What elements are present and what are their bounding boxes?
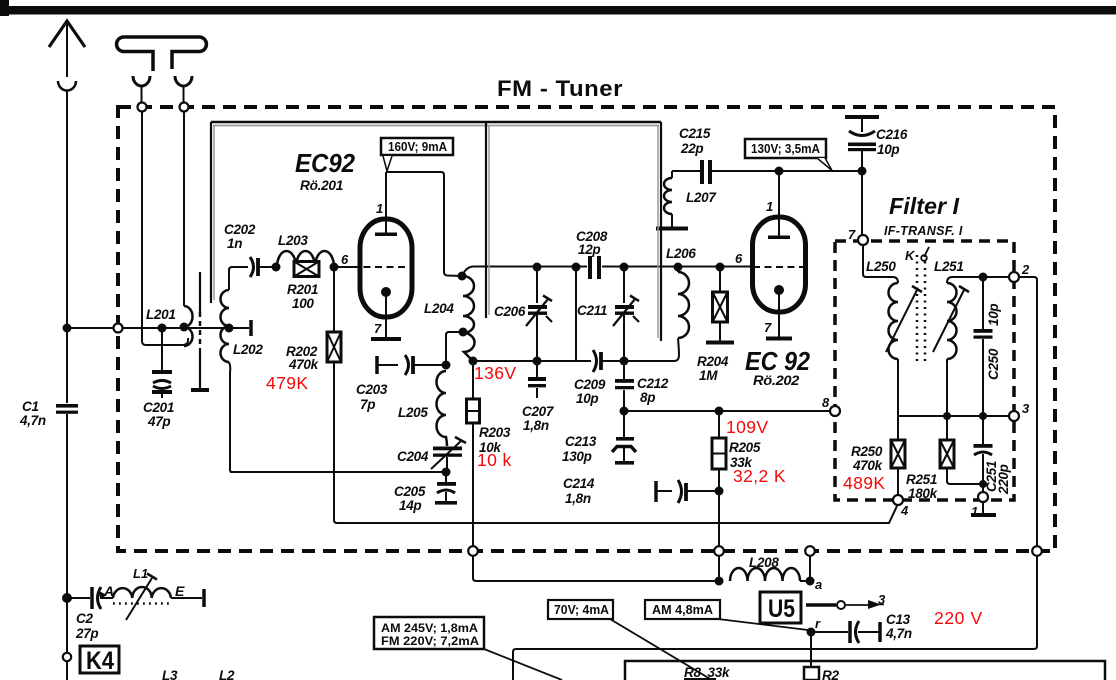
svg-text:7: 7 — [764, 320, 772, 335]
svg-text:K4: K4 — [86, 647, 114, 675]
svg-text:EC92: EC92 — [295, 148, 355, 178]
svg-text:R250: R250 — [851, 444, 883, 459]
svg-text:R8 33k: R8 33k — [684, 665, 731, 680]
svg-text:4,7n: 4,7n — [19, 413, 46, 428]
svg-text:C203: C203 — [356, 382, 388, 397]
svg-text:7: 7 — [374, 321, 382, 336]
svg-text:10p: 10p — [986, 304, 1001, 326]
svg-text:FM 220V; 7,2mA: FM 220V; 7,2mA — [381, 636, 479, 648]
svg-text:U5: U5 — [768, 595, 795, 623]
svg-text:32,2 K: 32,2 K — [733, 466, 786, 486]
svg-text:AM 4,8mA: AM 4,8mA — [652, 603, 713, 617]
svg-text:1M: 1M — [699, 368, 718, 383]
svg-text:4: 4 — [900, 503, 909, 518]
svg-text:IF-TRANSF. I: IF-TRANSF. I — [884, 224, 963, 238]
svg-text:L203: L203 — [278, 233, 308, 248]
svg-text:479K: 479K — [266, 373, 308, 393]
svg-text:L202: L202 — [233, 342, 263, 357]
svg-text:C216: C216 — [876, 127, 908, 142]
svg-text:R203: R203 — [479, 425, 511, 440]
svg-text:10 k: 10 k — [477, 450, 512, 470]
svg-text:C1: C1 — [22, 399, 39, 414]
svg-text:70V; 4mA: 70V; 4mA — [554, 603, 609, 617]
svg-text:8p: 8p — [640, 390, 655, 405]
svg-text:C211: C211 — [577, 303, 607, 318]
svg-text:109V: 109V — [726, 417, 768, 437]
svg-text:C215: C215 — [679, 126, 711, 141]
svg-text:14p: 14p — [399, 498, 421, 513]
svg-text:L207: L207 — [686, 190, 717, 205]
svg-text:A: A — [103, 583, 114, 599]
svg-text:22p: 22p — [680, 141, 703, 156]
svg-text:C13: C13 — [886, 612, 911, 627]
svg-text:C250: C250 — [986, 348, 1001, 380]
svg-text:470k: 470k — [288, 357, 320, 372]
svg-text:C205: C205 — [394, 484, 426, 499]
svg-text:C213: C213 — [565, 434, 597, 449]
svg-text:160V; 9mA: 160V; 9mA — [388, 140, 447, 154]
svg-text:C214: C214 — [563, 476, 595, 491]
svg-text:L205: L205 — [398, 405, 428, 420]
svg-text:L201: L201 — [146, 307, 176, 322]
svg-text:130p: 130p — [562, 449, 592, 464]
svg-text:L208: L208 — [749, 555, 779, 570]
svg-text:7: 7 — [848, 227, 856, 242]
svg-text:EC 92: EC 92 — [745, 346, 810, 376]
svg-text:C207: C207 — [522, 404, 555, 419]
svg-text:12p: 12p — [578, 242, 600, 257]
svg-text:Filter I: Filter I — [889, 193, 960, 219]
svg-text:6: 6 — [341, 252, 349, 267]
svg-text:1: 1 — [971, 504, 978, 519]
svg-text:Rö.202: Rö.202 — [753, 373, 800, 388]
svg-text:136V: 136V — [474, 363, 516, 383]
svg-text:C201: C201 — [143, 400, 174, 415]
svg-text:L3: L3 — [162, 668, 178, 680]
svg-text:C212: C212 — [637, 376, 669, 391]
svg-text:C204: C204 — [397, 449, 429, 464]
svg-text:489K: 489K — [843, 473, 885, 493]
svg-text:100: 100 — [292, 296, 314, 311]
svg-text:470k: 470k — [852, 458, 884, 473]
svg-text:1: 1 — [376, 201, 383, 216]
svg-text:C2: C2 — [76, 611, 93, 626]
svg-text:2: 2 — [1021, 262, 1030, 277]
svg-text:C206: C206 — [494, 304, 526, 319]
svg-text:Rö.201: Rö.201 — [300, 178, 343, 193]
svg-text:10p: 10p — [576, 391, 598, 406]
svg-text:AM 245V; 1,8mA: AM 245V; 1,8mA — [381, 623, 478, 635]
svg-text:R205: R205 — [729, 440, 761, 455]
svg-text:180k: 180k — [908, 486, 939, 501]
svg-text:R204: R204 — [697, 354, 729, 369]
svg-text:C209: C209 — [574, 377, 606, 392]
svg-text:R2: R2 — [822, 668, 839, 680]
svg-text:27p: 27p — [75, 626, 98, 641]
svg-text:FM - Tuner: FM - Tuner — [497, 76, 623, 101]
svg-text:1,8n: 1,8n — [565, 491, 591, 506]
svg-text:3: 3 — [1022, 401, 1030, 416]
svg-text:130V; 3,5mA: 130V; 3,5mA — [751, 142, 820, 156]
svg-text:a: a — [815, 577, 822, 592]
svg-text:K: K — [905, 248, 916, 263]
svg-text:L250: L250 — [866, 259, 896, 274]
svg-text:6: 6 — [735, 251, 743, 266]
svg-text:R201: R201 — [287, 282, 318, 297]
svg-text:1n: 1n — [227, 236, 242, 251]
svg-text:7p: 7p — [360, 397, 375, 412]
svg-text:L2: L2 — [219, 668, 235, 680]
svg-text:10p: 10p — [877, 142, 899, 157]
svg-text:L251: L251 — [934, 259, 964, 274]
svg-text:R251: R251 — [906, 472, 937, 487]
svg-text:L1: L1 — [133, 566, 148, 581]
svg-text:L206: L206 — [666, 246, 696, 261]
svg-text:L204: L204 — [424, 301, 454, 316]
svg-text:220p: 220p — [996, 464, 1011, 495]
svg-text:3: 3 — [878, 592, 886, 607]
svg-text:1,8n: 1,8n — [523, 418, 549, 433]
svg-text:C202: C202 — [224, 222, 256, 237]
svg-text:1: 1 — [766, 199, 773, 214]
svg-text:E: E — [175, 583, 185, 599]
svg-text:220 V: 220 V — [934, 608, 983, 628]
svg-text:47p: 47p — [147, 414, 170, 429]
svg-text:8: 8 — [822, 395, 830, 410]
svg-text:4,7n: 4,7n — [885, 626, 912, 641]
